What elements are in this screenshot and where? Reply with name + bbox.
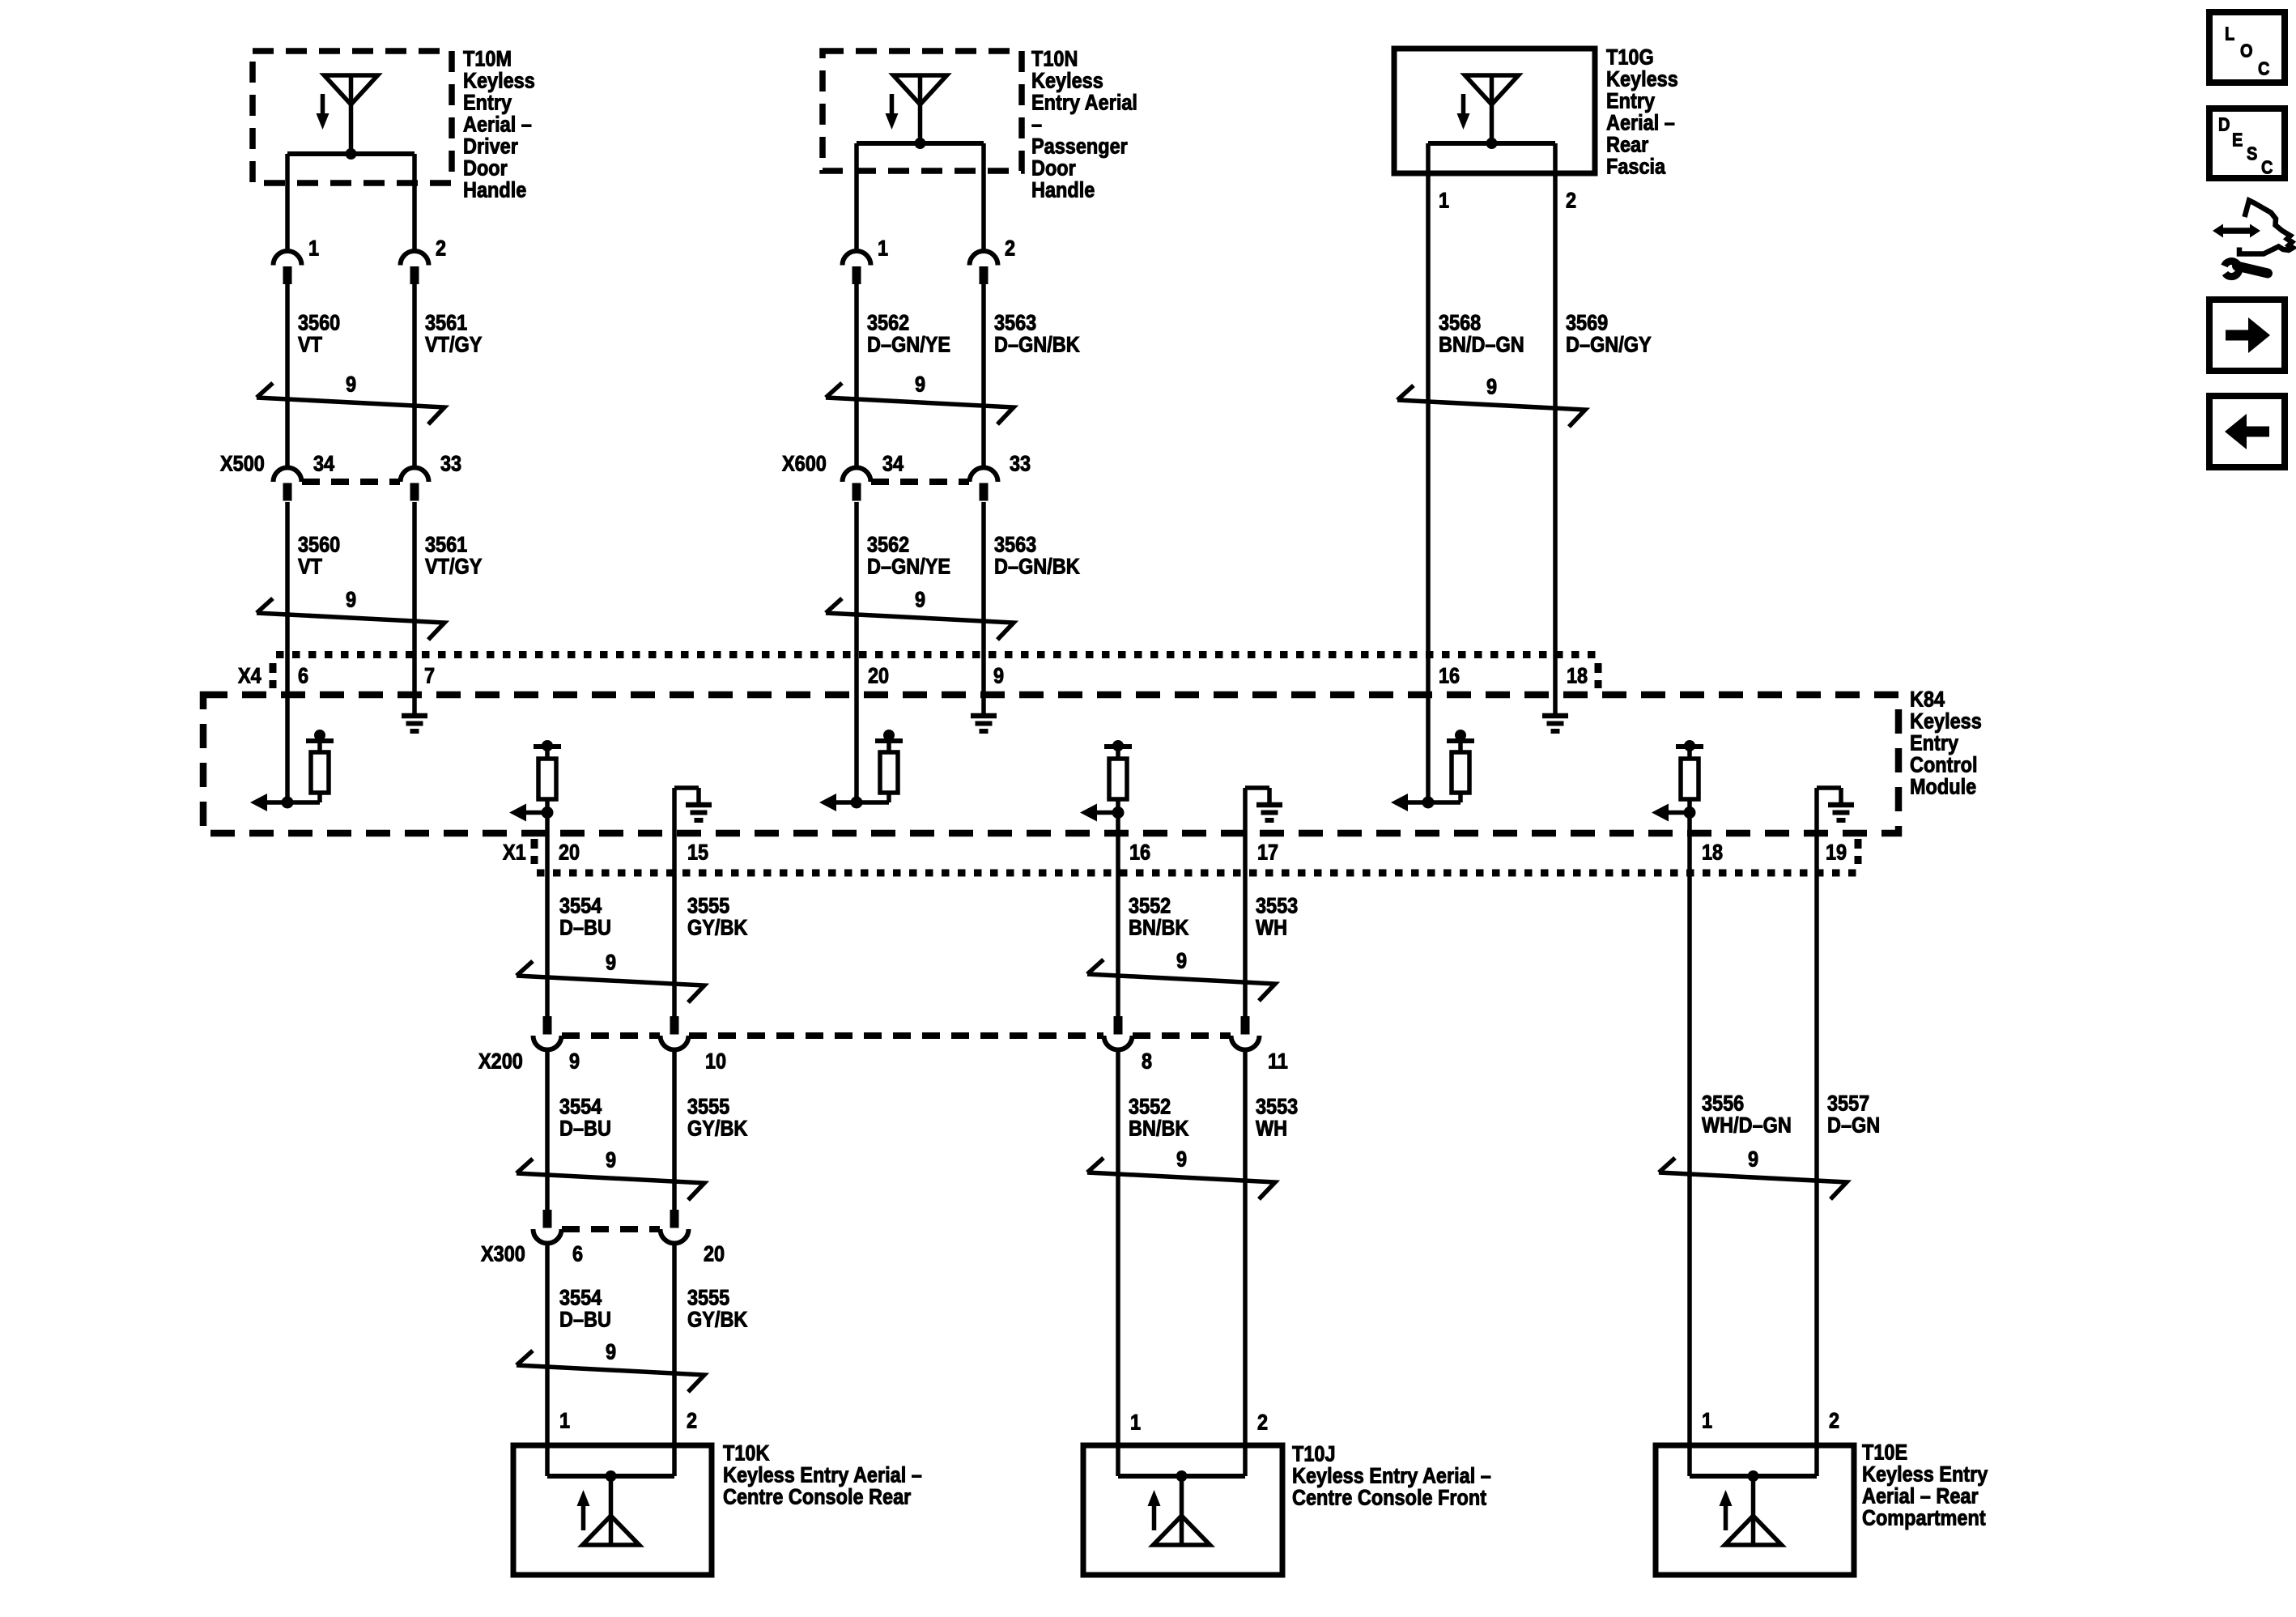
X1 right separator [1855,839,1862,864]
connector X200 pin 9 [534,1016,562,1050]
connector X200 pin 8 [1104,1016,1133,1050]
svg-text:3556: 3556 [1702,1091,1744,1116]
svg-text:2: 2 [1257,1411,1268,1435]
svg-text:2: 2 [1829,1409,1839,1433]
svg-text:D–BU: D–BU [559,1117,611,1141]
X600 label [782,452,827,476]
svg-text:E: E [2232,129,2243,151]
wire X4 ground side T10N [981,654,986,713]
svg-text:D–GN/YE: D–GN/YE [867,555,950,579]
svg-text:11: 11 [1268,1049,1288,1074]
svg-text:Compartment: Compartment [1862,1506,1986,1530]
svg-text:3557: 3557 [1827,1091,1869,1116]
X1 pin 16 label [1129,840,1150,865]
svg-text:16: 16 [1439,664,1460,688]
internal ground for T10J return [1245,788,1282,873]
connector X600 pin 34 [843,468,871,501]
wire X4 input T10M into module [285,654,290,802]
svg-text:Driver: Driver [463,134,518,159]
svg-text:3561: 3561 [425,533,467,557]
wire 3552 BN/BK segment 1 [1116,873,1120,1017]
svg-text:20: 20 [868,664,889,688]
twisted pair symbol T10J upper [1087,960,1275,1001]
svg-text:Keyless Entry Aerial –: Keyless Entry Aerial – [1292,1464,1491,1488]
wire X4 input T10N into module [854,654,859,802]
connector X300 pin 20 [661,1210,689,1244]
svg-text:L: L [2225,23,2234,45]
svg-text:3552: 3552 [1129,1095,1171,1119]
svg-text:Centre Console Rear: Centre Console Rear [723,1485,911,1509]
svg-text:Module: Module [1910,775,1976,799]
twisted pair count 9 label [346,588,356,612]
wire 3555 GY/BK segment 2 [672,1050,677,1211]
svg-text:D–GN/BK: D–GN/BK [994,555,1080,579]
svg-text:2: 2 [1005,236,1015,261]
wire label 3553 WH lower [1256,1095,1298,1141]
twisted pair count 9 label [346,372,356,397]
connector X600 dashed link [871,479,969,485]
svg-text:VT/GY: VT/GY [425,555,483,579]
wire label 3554 D-BU mid [559,1095,611,1141]
svg-text:Centre Console Front: Centre Console Front [1292,1486,1487,1510]
K84 label [1910,687,1982,799]
wire label 3563 D-GN/BK [994,311,1080,357]
svg-text:19: 19 [1826,840,1847,865]
X1 pin 17 label [1257,840,1278,865]
pin 1 label T10K [559,1409,570,1433]
svg-text:9: 9 [606,1340,616,1364]
svg-text:S: S [2247,143,2257,164]
svg-text:3568: 3568 [1439,311,1481,335]
wire label 3553 WH [1256,894,1298,940]
X300 label [481,1242,525,1266]
wire T10N pin2 to connector [981,143,986,251]
svg-text:3563: 3563 [994,311,1036,335]
svg-text:GY/BK: GY/BK [687,1117,748,1141]
internal junction and arrow for T10E output [1652,799,1696,873]
svg-text:Fascia: Fascia [1606,155,1666,179]
twisted pair count 9 label [606,1148,616,1172]
twisted pair count 9 label [606,951,616,975]
internal resistor for T10E output [1676,740,1703,799]
aerial T10K antenna symbol [547,1470,674,1545]
aerial T10E antenna symbol [1690,1470,1817,1545]
wire X4 ground side T10G [1553,654,1558,713]
twisted pair symbol T10M lower [257,598,444,640]
wire 3563 D-GN/BK segment 1 [981,283,986,468]
twisted pair symbol T10N lower [826,598,1014,640]
svg-text:GY/BK: GY/BK [687,916,748,940]
X200 pin 8 label [1142,1049,1152,1074]
internal junction and arrow for T10K output [509,799,554,873]
wire 3560 VT segment 2 [285,502,290,654]
twisted pair symbol T10E [1659,1158,1847,1199]
X4 pin 20 label [868,664,889,688]
internal resistor for T10J output [1104,740,1132,799]
pin 1 label T10M [308,236,319,261]
connector pin 2 T10M [401,251,429,284]
pin 1 label T10J [1130,1411,1141,1435]
X200 pin 11 label [1268,1049,1288,1074]
svg-text:20: 20 [559,840,580,865]
svg-text:20: 20 [704,1242,725,1266]
svg-text:D–BU: D–BU [559,916,611,940]
wire label 3563 D-GN/BK lower [994,533,1080,579]
wire 3563 D-GN/BK segment 2 [981,502,986,654]
pin 2 label T10G [1566,189,1576,213]
X200 pin 10 label [705,1049,726,1074]
internal junction and arrow for T10N input [819,794,889,811]
svg-text:D–GN: D–GN [1827,1113,1880,1138]
wire 3569 D-GN/GY [1553,143,1558,654]
wire 3555 GY/BK segment 3 [672,1244,677,1476]
svg-text:9: 9 [1486,375,1497,399]
svg-text:Aerial – Rear: Aerial – Rear [1862,1484,1979,1508]
X500 label [220,452,265,476]
pin 1 label T10E [1702,1409,1712,1433]
connector X4 dotted line [276,651,1597,658]
wire 3554 D-BU segment 3 [545,1244,550,1476]
svg-text:3553: 3553 [1256,1095,1298,1119]
svg-text:BN/D–GN: BN/D–GN [1439,333,1524,357]
internal junction and arrow for T10G input [1391,794,1461,811]
svg-text:33: 33 [440,452,461,476]
svg-text:10: 10 [705,1049,726,1074]
svg-text:Entry: Entry [1910,731,1958,755]
aerial T10M label [463,47,535,202]
X1 pin 15 label [687,840,708,865]
svg-text:Rear: Rear [1606,133,1648,157]
X1 pin 19 label [1826,840,1847,865]
X600 pin 33 label [1010,452,1031,476]
svg-text:T10M: T10M [463,47,512,71]
X4 pin 7 label [424,664,435,688]
svg-text:X200: X200 [478,1049,523,1074]
connector pin 1 T10N [843,251,871,284]
connector X200 dashed line [562,1032,1231,1039]
internal resistor for T10K output [534,740,561,799]
wire 3562 D-GN/YE segment 1 [854,283,859,468]
svg-text:2: 2 [436,236,446,261]
svg-text:X1: X1 [503,840,526,865]
left arrow icon box [2209,396,2285,467]
svg-text:T10J: T10J [1292,1442,1336,1466]
svg-text:Aerial –: Aerial – [1606,111,1675,135]
pin 1 label T10G [1439,189,1449,213]
X500 pin 33 label [440,452,461,476]
pin 1 label T10N [878,236,888,261]
svg-text:9: 9 [1748,1147,1758,1172]
svg-text:1: 1 [308,236,319,261]
svg-text:3560: 3560 [298,311,340,335]
svg-text:3554: 3554 [559,1095,602,1119]
aerial T10N antenna symbol [857,75,984,149]
right arrow icon box [2209,300,2285,371]
svg-text:9: 9 [346,372,356,397]
svg-text:9: 9 [569,1049,580,1074]
X1 pin 20 label [559,840,580,865]
svg-text:D–GN/BK: D–GN/BK [994,333,1080,357]
twisted pair symbol T10K upper [517,961,704,1002]
connector pin 1 T10M [274,251,302,284]
svg-text:T10E: T10E [1862,1440,1907,1465]
twisted pair count 9 label [606,1340,616,1364]
svg-text:2: 2 [1566,189,1576,213]
svg-text:Entry: Entry [463,91,512,115]
DESC icon box [2209,109,2285,178]
twisted pair symbol T10K lower [517,1351,704,1392]
aerial T10G antenna symbol [1428,75,1555,149]
svg-text:1: 1 [1130,1411,1141,1435]
wire X4 ground side T10M [412,654,417,713]
svg-text:X4: X4 [238,664,261,688]
twisted pair symbol T10K middle [517,1159,704,1200]
X300 pin 6 label [572,1242,583,1266]
aerial T10M box [253,51,452,183]
wire label 3554 D-BU lower [559,1286,611,1332]
svg-text:9: 9 [606,951,616,975]
svg-text:Control: Control [1910,753,1977,777]
aerial T10E box [1656,1445,1854,1575]
svg-text:C: C [2258,57,2269,79]
svg-text:C: C [2261,156,2273,178]
wire label 3560 VT lower [298,533,340,579]
svg-text:GY/BK: GY/BK [687,1308,748,1332]
svg-text:9: 9 [1176,949,1187,973]
X1 label [503,840,526,865]
X4 label [238,664,261,688]
svg-text:X500: X500 [220,452,265,476]
svg-text:3555: 3555 [687,1095,729,1119]
svg-text:Keyless Entry: Keyless Entry [1862,1462,1988,1487]
svg-text:3561: 3561 [425,311,467,335]
pin 2 label T10K [687,1409,697,1433]
pin 2 label T10J [1257,1411,1268,1435]
svg-text:WH/D–GN: WH/D–GN [1702,1113,1792,1138]
wire label 3560 VT [298,311,340,357]
aerial T10J box [1083,1445,1282,1575]
svg-text:3552: 3552 [1129,894,1171,918]
svg-text:9: 9 [606,1148,616,1172]
aerial T10K label [723,1441,922,1509]
module K84 dashed box [203,695,1898,833]
svg-text:Keyless Entry Aerial –: Keyless Entry Aerial – [723,1463,922,1487]
wire label 3555 GY/BK [687,894,748,940]
wire 3554 D-BU segment 1 [545,873,550,1017]
twisted pair count 9 label [1486,375,1497,399]
wire label 3552 BN/BK lower [1129,1095,1189,1141]
wire T10N pin1 to connector [854,143,859,251]
ground for T10M return [402,716,427,731]
wire label 3554 D-BU [559,894,611,940]
twisted pair symbol T10G [1397,385,1585,427]
X200 label [478,1049,523,1074]
svg-text:16: 16 [1129,840,1150,865]
wire T10M pin2 to connector [412,154,417,251]
wire label 3569 D-GN/GY [1566,311,1652,357]
internal ground for T10K return [674,788,712,873]
wrench icon [2225,262,2268,277]
ground for T10G return [1542,716,1568,731]
svg-text:3555: 3555 [687,894,729,918]
wire 3554 D-BU segment 2 [545,1050,550,1211]
svg-text:9: 9 [346,588,356,612]
twisted pair symbol T10N upper [826,383,1014,424]
svg-text:34: 34 [313,452,334,476]
wire 3557 D-GN [1814,873,1819,1476]
wire label 3556 WH/D-GN [1702,1091,1792,1138]
connector X500 pin 33 [401,468,429,501]
svg-text:X600: X600 [782,452,827,476]
X600 pin 34 label [882,452,904,476]
svg-text:34: 34 [882,452,904,476]
svg-text:9: 9 [915,372,925,397]
connector X300 pin 6 [534,1210,562,1244]
connector X500 dashed link [302,479,400,485]
X4 pin 18 label [1567,664,1588,688]
wire label 3555 GY/BK lower [687,1286,748,1332]
twisted pair count 9 label [1176,949,1187,973]
svg-text:T10N: T10N [1031,47,1078,71]
svg-text:33: 33 [1010,452,1031,476]
wire label 3552 BN/BK [1129,894,1189,940]
svg-text:WH: WH [1256,1117,1287,1141]
svg-text:3562: 3562 [867,311,909,335]
internal resistor for T10M input [306,730,334,802]
wire T10M pin1 to connector [285,154,290,251]
X500 pin 34 label [313,452,334,476]
svg-text:VT: VT [298,333,323,357]
svg-text:BN/BK: BN/BK [1129,1117,1189,1141]
wire label 3568 BN/D-GN [1439,311,1524,357]
twisted pair symbol T10M upper [257,383,444,424]
svg-text:9: 9 [915,588,925,612]
X4 pin 16 label [1439,664,1460,688]
wire label 3561 VT/GY [425,311,483,357]
connector X500 pin 34 [274,468,302,501]
svg-text:7: 7 [424,664,435,688]
svg-text:8: 8 [1142,1049,1152,1074]
svg-text:17: 17 [1257,840,1278,865]
svg-text:VT: VT [298,555,323,579]
wire 3555 GY/BK segment 1 [672,873,677,1017]
svg-text:3569: 3569 [1566,311,1608,335]
svg-text:1: 1 [878,236,888,261]
X1 pin 18 label [1702,840,1723,865]
svg-text:1: 1 [1439,189,1449,213]
internal junction and arrow for T10J output [1080,799,1125,873]
svg-text:1: 1 [1702,1409,1712,1433]
aerial T10K box [513,1445,712,1575]
internal junction and arrow for T10M input [250,794,320,811]
svg-text:Keyless: Keyless [1606,67,1678,91]
internal resistor for T10G input [1447,730,1474,802]
svg-text:Keyless: Keyless [1031,69,1103,93]
wire label 3555 GY/BK mid [687,1095,748,1141]
svg-text:X300: X300 [481,1242,525,1266]
X4 pin 6 label [298,664,308,688]
svg-text:Handle: Handle [1031,178,1095,202]
wire 3561 VT/GY segment 1 [412,283,417,468]
twisted pair count 9 label [1176,1147,1187,1172]
svg-text:D–GN/GY: D–GN/GY [1566,333,1652,357]
svg-text:Passenger: Passenger [1031,134,1128,159]
svg-text:18: 18 [1567,664,1588,688]
wire 3562 D-GN/YE segment 2 [854,502,859,654]
pin 2 label T10E [1829,1409,1839,1433]
aerial T10N label [1031,47,1137,202]
wire 3552 BN/BK segment 2 [1116,1050,1120,1476]
svg-text:Keyless: Keyless [1910,709,1982,734]
svg-text:Aerial –: Aerial – [463,113,532,137]
X300 pin 20 label [704,1242,725,1266]
svg-text:BN/BK: BN/BK [1129,916,1189,940]
connector pin 2 T10N [970,251,998,284]
svg-text:VT/GY: VT/GY [425,333,483,357]
wire label 3562 D-GN/YE lower [867,533,950,579]
wire 3568 BN/D-GN [1426,143,1431,654]
svg-text:18: 18 [1702,840,1723,865]
svg-text:3553: 3553 [1256,894,1298,918]
svg-text:Keyless: Keyless [463,69,535,93]
aerial T10N box [823,51,1022,171]
twisted pair count 9 label [915,588,925,612]
svg-text:Entry Aerial: Entry Aerial [1031,91,1137,115]
svg-text:2: 2 [687,1409,697,1433]
aerial T10E label [1862,1440,1988,1530]
svg-text:9: 9 [993,664,1004,688]
internal resistor for T10N input [875,730,903,802]
connector X600 pin 33 [970,468,998,501]
connector X200 pin 11 [1231,1016,1260,1050]
wire label 3557 D-GN [1827,1091,1880,1138]
svg-text:T10K: T10K [723,1441,770,1466]
svg-text:9: 9 [1176,1147,1187,1172]
twisted pair count 9 label [915,372,925,397]
twisted pair count 9 label [1748,1147,1758,1172]
svg-text:6: 6 [572,1242,583,1266]
connector X1 dotted line [537,870,1860,877]
wire 3560 VT segment 1 [285,283,290,468]
X200 pin 9 label [569,1049,580,1074]
wire 3553 WH segment 1 [1243,873,1248,1017]
svg-text:D: D [2218,113,2230,135]
svg-text:3554: 3554 [559,894,602,918]
LOC icon box [2209,12,2285,83]
svg-text:3562: 3562 [867,533,909,557]
svg-text:D–GN/YE: D–GN/YE [867,333,950,357]
internal ground for T10E return [1817,788,1854,873]
svg-text:Door: Door [1031,156,1076,181]
svg-text:T10G: T10G [1606,45,1654,70]
connector X300 dashed line [562,1226,660,1232]
X4 pin 9 label [993,664,1004,688]
svg-text:O: O [2240,40,2253,62]
svg-text:Entry: Entry [1606,89,1655,113]
twisted pair symbol T10J lower [1087,1158,1275,1199]
ground for T10N return [971,716,997,731]
wire label 3561 VT/GY lower [425,533,483,579]
hand icon with double arrow [2213,201,2293,254]
svg-text:WH: WH [1256,916,1287,940]
aerial T10J antenna symbol [1118,1470,1245,1545]
aerial T10J label [1292,1442,1491,1510]
connector X200 pin 10 [661,1016,689,1050]
aerial T10G label [1606,45,1678,179]
svg-text:1: 1 [559,1409,570,1433]
svg-text:3555: 3555 [687,1286,729,1310]
svg-text:3563: 3563 [994,533,1036,557]
